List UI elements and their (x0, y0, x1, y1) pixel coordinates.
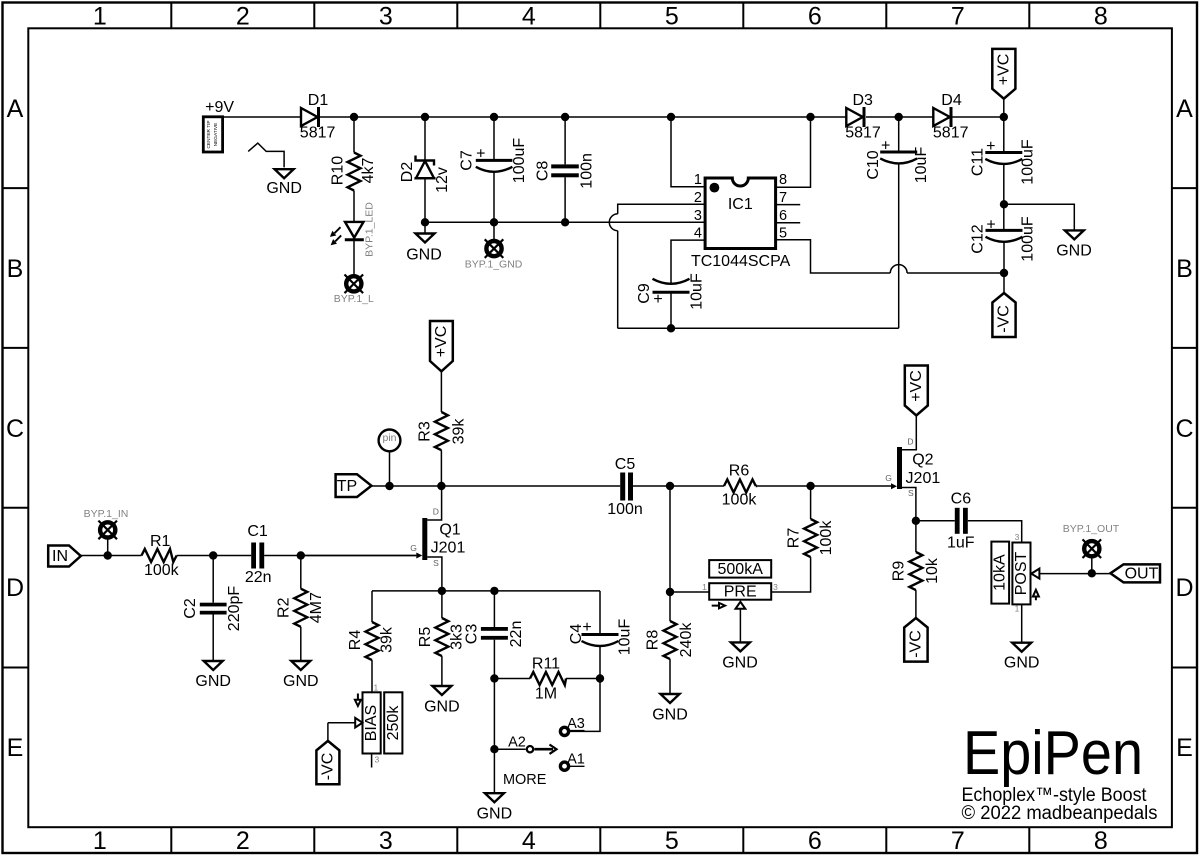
svg-text:10uF: 10uF (913, 147, 930, 184)
svg-text:1: 1 (694, 172, 702, 188)
svg-text:C: C (6, 415, 24, 443)
svg-text:D: D (6, 574, 24, 602)
svg-text:100uF: 100uF (511, 138, 528, 184)
svg-text:E: E (1176, 734, 1193, 762)
svg-text:100k: 100k (144, 562, 180, 579)
svg-text:C11: C11 (969, 148, 986, 176)
svg-text:3: 3 (694, 208, 702, 224)
svg-text:4: 4 (522, 827, 536, 855)
svg-text:39k: 39k (450, 418, 467, 445)
svg-text:7: 7 (779, 190, 787, 206)
svg-text:C7: C7 (459, 150, 476, 171)
svg-text:100k: 100k (722, 492, 758, 509)
svg-text:4k7: 4k7 (360, 158, 377, 184)
svg-text:J201: J201 (906, 470, 941, 487)
svg-text:BYP.1_L: BYP.1_L (334, 293, 374, 305)
svg-text:-VC: -VC (907, 630, 924, 658)
svg-text:pin: pin (382, 432, 396, 444)
svg-text:© 2022 madbeanpedals: © 2022 madbeanpedals (962, 803, 1158, 824)
svg-text:BYP.1_IN: BYP.1_IN (84, 508, 129, 520)
svg-text:G: G (410, 543, 417, 553)
svg-text:G: G (885, 473, 892, 483)
svg-text:GND: GND (1056, 242, 1092, 259)
svg-text:GND: GND (283, 673, 319, 690)
svg-text:1: 1 (1015, 604, 1020, 614)
svg-text:100n: 100n (579, 153, 596, 189)
svg-text:B: B (7, 255, 24, 283)
svg-text:GND: GND (195, 673, 231, 690)
svg-text:POST: POST (1013, 551, 1030, 595)
svg-text:39k: 39k (378, 626, 395, 653)
svg-text:A: A (1176, 95, 1193, 123)
svg-text:+: + (582, 619, 591, 636)
svg-text:2: 2 (236, 3, 250, 31)
svg-text:C12: C12 (970, 224, 987, 253)
svg-text:1: 1 (702, 582, 707, 592)
svg-text:5817: 5817 (933, 125, 969, 142)
svg-text:R9: R9 (890, 561, 907, 582)
svg-text:A: A (7, 95, 24, 123)
svg-text:+: + (476, 146, 485, 163)
svg-text:GND: GND (1004, 655, 1040, 672)
svg-text:3: 3 (773, 582, 778, 592)
svg-text:+9V: +9V (205, 99, 234, 116)
svg-text:A1: A1 (567, 752, 585, 768)
svg-text:R8: R8 (645, 630, 662, 651)
svg-text:GND: GND (652, 707, 688, 724)
svg-text:C5: C5 (615, 456, 636, 473)
svg-text:-VC: -VC (996, 305, 1013, 333)
svg-text:IN: IN (52, 548, 68, 565)
svg-text:R6: R6 (729, 463, 750, 480)
svg-text:A3: A3 (567, 716, 585, 732)
svg-text:GND: GND (406, 247, 442, 264)
svg-text:D4: D4 (941, 92, 962, 109)
svg-text:IC1: IC1 (728, 196, 753, 213)
svg-text:3: 3 (1015, 532, 1020, 542)
svg-text:250k: 250k (385, 705, 402, 741)
svg-text:B: B (1176, 255, 1193, 283)
svg-text:7: 7 (951, 827, 965, 855)
svg-text:GND: GND (266, 180, 302, 197)
svg-text:+: + (881, 138, 890, 155)
svg-text:8: 8 (1094, 827, 1108, 855)
svg-text:5: 5 (665, 827, 679, 855)
svg-text:A2: A2 (508, 735, 526, 751)
svg-text:8: 8 (779, 172, 787, 188)
svg-text:-VC: -VC (319, 753, 336, 781)
svg-text:C: C (1175, 415, 1193, 443)
svg-text:1: 1 (93, 827, 107, 855)
svg-text:+: + (653, 291, 662, 308)
svg-text:8: 8 (1094, 3, 1108, 31)
svg-text:6: 6 (779, 208, 787, 224)
svg-text:D: D (907, 437, 913, 447)
svg-text:GND: GND (477, 805, 513, 822)
svg-text:R3: R3 (417, 421, 434, 442)
svg-text:Q1: Q1 (439, 522, 460, 539)
svg-text:CENTER TIP: CENTER TIP (206, 121, 212, 149)
svg-text:D2: D2 (399, 162, 416, 183)
svg-text:OUT: OUT (1125, 565, 1159, 582)
svg-text:1: 1 (93, 3, 107, 31)
svg-text:5817: 5817 (845, 125, 881, 142)
svg-text:D: D (433, 507, 439, 517)
svg-text:NEGATIVE: NEGATIVE (213, 123, 219, 147)
svg-text:MORE: MORE (503, 772, 547, 788)
svg-text:4M7: 4M7 (308, 592, 325, 623)
svg-text:100k: 100k (818, 520, 835, 556)
svg-text:220pF: 220pF (226, 586, 243, 632)
svg-text:D3: D3 (852, 92, 873, 109)
svg-text:EpiPen: EpiPen (963, 719, 1143, 788)
svg-text:R10: R10 (329, 156, 346, 185)
svg-text:R11: R11 (532, 656, 560, 673)
svg-text:C6: C6 (951, 491, 972, 508)
svg-text:C1: C1 (247, 523, 268, 540)
svg-text:500kA: 500kA (718, 561, 764, 578)
svg-text:D1: D1 (308, 92, 329, 109)
svg-text:5817: 5817 (300, 125, 336, 142)
svg-text:TP: TP (337, 478, 357, 495)
svg-text:C9: C9 (636, 283, 653, 304)
svg-text:R2: R2 (275, 597, 292, 618)
svg-text:4: 4 (694, 226, 702, 242)
svg-text:22n: 22n (245, 569, 272, 586)
svg-text:3: 3 (379, 3, 393, 31)
svg-text:GND: GND (722, 654, 758, 671)
svg-text:R1: R1 (150, 533, 171, 550)
svg-text:100uF: 100uF (1019, 139, 1036, 185)
svg-text:10k: 10k (924, 557, 941, 584)
svg-text:240k: 240k (678, 622, 695, 658)
svg-text:BYP.1_LED: BYP.1_LED (364, 202, 376, 257)
svg-text:1: 1 (374, 683, 379, 693)
svg-text:BYP.1_OUT: BYP.1_OUT (1063, 523, 1120, 535)
svg-text:5: 5 (665, 3, 679, 31)
svg-text:PRE: PRE (724, 583, 757, 600)
svg-text:E: E (7, 734, 24, 762)
svg-text:+VC: +VC (433, 326, 450, 358)
svg-text:3: 3 (375, 755, 380, 765)
svg-text:+VC: +VC (995, 54, 1012, 86)
svg-text:100n: 100n (607, 501, 643, 518)
svg-text:C8: C8 (535, 161, 552, 182)
svg-text:+VC: +VC (908, 370, 925, 402)
svg-text:12v: 12v (434, 167, 451, 193)
svg-text:1uF: 1uF (947, 535, 975, 552)
svg-text:10uF: 10uF (688, 273, 705, 310)
svg-text:S: S (433, 558, 439, 568)
svg-text:10uF: 10uF (617, 619, 634, 656)
svg-text:S: S (908, 488, 914, 498)
svg-text:D: D (1175, 574, 1193, 602)
svg-text:BIAS: BIAS (363, 705, 380, 741)
svg-text:R7: R7 (786, 528, 803, 549)
svg-text:R4: R4 (347, 630, 364, 651)
svg-text:GND: GND (424, 699, 460, 716)
svg-text:Q2: Q2 (912, 452, 933, 469)
svg-text:5: 5 (779, 226, 787, 242)
svg-text:C3: C3 (463, 624, 480, 645)
svg-text:+: + (986, 138, 995, 155)
svg-text:1M: 1M (535, 686, 557, 703)
svg-text:6: 6 (808, 827, 822, 855)
svg-text:C10: C10 (865, 150, 882, 179)
svg-text:C2: C2 (182, 598, 199, 619)
svg-text:J201: J201 (431, 540, 466, 557)
svg-text:BYP.1_GND: BYP.1_GND (465, 259, 523, 271)
svg-text:+: + (986, 216, 995, 233)
svg-text:4: 4 (522, 3, 536, 31)
svg-text:3: 3 (379, 827, 393, 855)
svg-text:100uF: 100uF (1020, 216, 1037, 262)
svg-text:6: 6 (808, 3, 822, 31)
svg-text:R5: R5 (417, 627, 434, 648)
svg-text:2: 2 (694, 190, 702, 206)
svg-text:2: 2 (236, 827, 250, 855)
svg-text:TC1044SCPA: TC1044SCPA (691, 253, 791, 270)
svg-text:7: 7 (951, 3, 965, 31)
svg-text:22n: 22n (508, 621, 525, 648)
svg-text:10kA: 10kA (992, 554, 1009, 591)
